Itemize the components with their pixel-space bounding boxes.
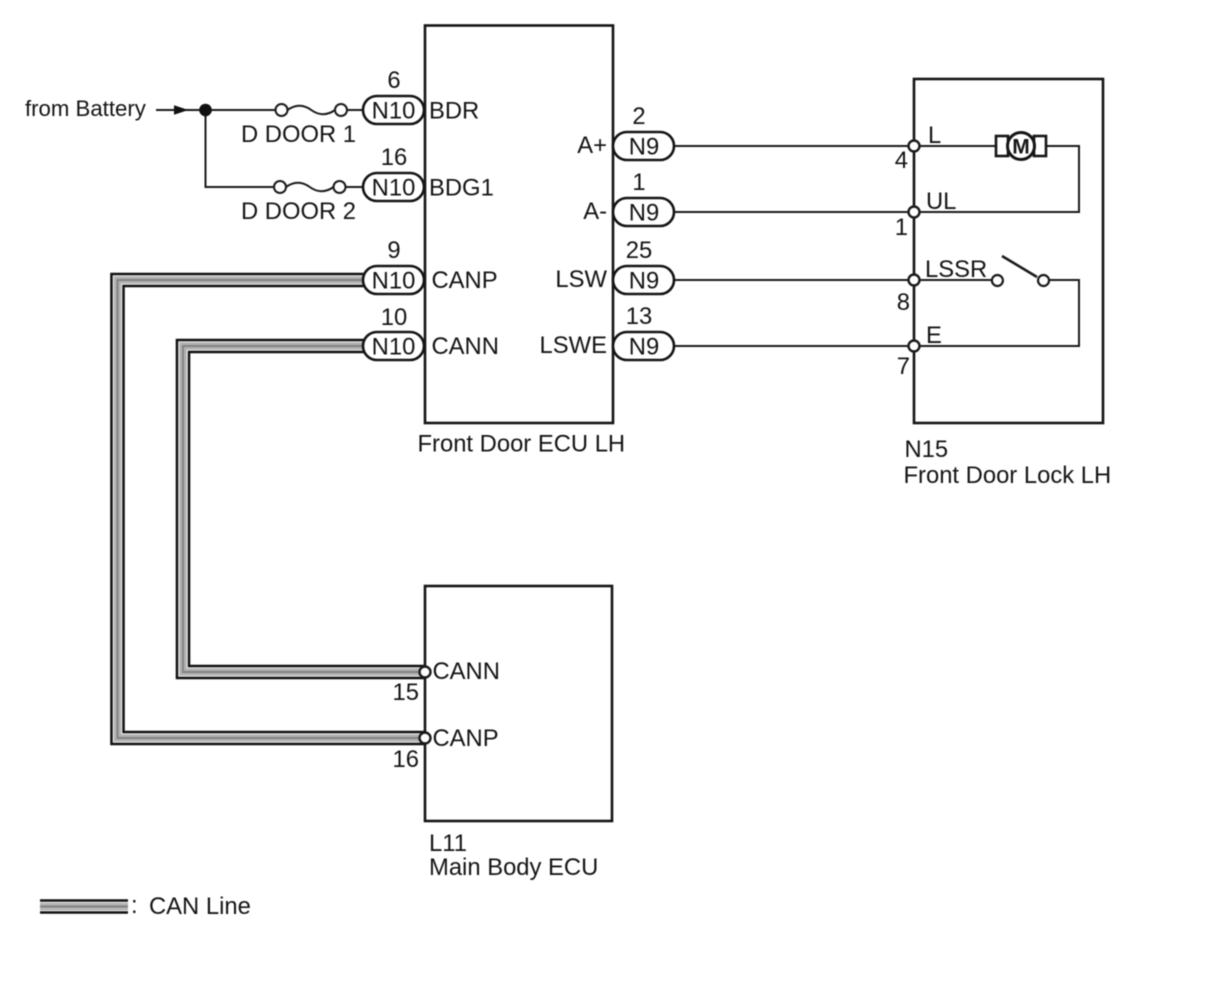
- svg-text:CANN: CANN: [432, 333, 499, 360]
- svg-text:1: 1: [895, 214, 908, 241]
- svg-text:from Battery: from Battery: [25, 96, 147, 121]
- svg-text:A+: A+: [577, 132, 607, 159]
- svg-text:E: E: [926, 322, 942, 349]
- svg-text:CAN Line: CAN Line: [149, 893, 251, 920]
- svg-text:N9: N9: [629, 334, 659, 361]
- svg-text:Front Door ECU LH: Front Door ECU LH: [418, 431, 626, 458]
- svg-text:BDG1: BDG1: [429, 175, 494, 202]
- svg-text:N9: N9: [629, 200, 659, 227]
- svg-text:UL: UL: [926, 188, 956, 215]
- svg-text:Main Body ECU: Main Body ECU: [429, 854, 598, 881]
- svg-text:LSSR: LSSR: [925, 256, 987, 283]
- svg-text:16: 16: [381, 144, 407, 171]
- svg-text:BDR: BDR: [429, 98, 479, 125]
- svg-text:D DOOR 1: D DOOR 1: [241, 121, 356, 148]
- svg-text:4: 4: [895, 147, 908, 174]
- svg-text:15: 15: [393, 679, 419, 706]
- svg-text:25: 25: [626, 237, 652, 264]
- svg-text:N10: N10: [372, 334, 416, 361]
- svg-text:CANP: CANP: [432, 267, 498, 294]
- svg-text:2: 2: [632, 103, 645, 130]
- svg-text:9: 9: [387, 237, 400, 264]
- svg-text:16: 16: [393, 746, 419, 773]
- svg-text:6: 6: [387, 67, 400, 94]
- svg-text:CANN: CANN: [433, 658, 500, 685]
- svg-text:LSWE: LSWE: [540, 332, 607, 359]
- svg-text:A-: A-: [583, 198, 607, 225]
- svg-text:10: 10: [381, 304, 407, 331]
- svg-text:L11: L11: [429, 830, 467, 857]
- svg-text:N10: N10: [372, 175, 416, 202]
- svg-text:N9: N9: [629, 268, 659, 295]
- svg-text:7: 7: [897, 353, 910, 380]
- svg-text:1: 1: [632, 169, 645, 196]
- svg-text:8: 8: [897, 289, 910, 316]
- svg-text:CANP: CANP: [433, 725, 499, 752]
- svg-text:N10: N10: [372, 268, 416, 295]
- svg-text:M: M: [1012, 136, 1030, 159]
- svg-text:LSW: LSW: [555, 266, 607, 293]
- svg-text:N10: N10: [372, 98, 416, 125]
- svg-text:N9: N9: [629, 134, 659, 161]
- svg-text:N15: N15: [905, 436, 949, 463]
- svg-text:D DOOR 2: D DOOR 2: [241, 198, 356, 225]
- svg-text:Front Door Lock LH: Front Door Lock LH: [904, 462, 1112, 489]
- svg-text::: :: [131, 892, 138, 919]
- svg-text:L: L: [928, 122, 941, 149]
- svg-text:13: 13: [626, 303, 652, 330]
